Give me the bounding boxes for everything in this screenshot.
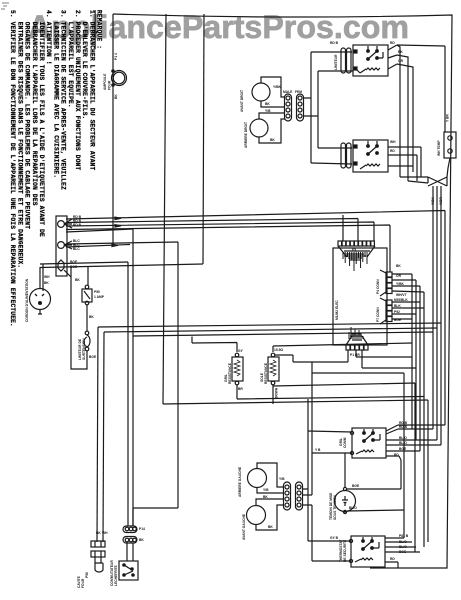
svg-text:GY B: GY B — [330, 536, 339, 540]
svg-text:DE SECURITE: DE SECURITE — [343, 539, 347, 562]
svg-text:P1 4: P1 4 — [114, 53, 118, 60]
svg-text:WH TEMP: WH TEMP — [437, 140, 441, 156]
svg-text:BK: BK — [89, 315, 94, 319]
svg-text:RD: RD — [390, 557, 395, 561]
svg-text:BK: BK — [263, 495, 268, 499]
svg-text:RD B: RD B — [399, 425, 408, 429]
svg-text:Y B: Y B — [315, 448, 321, 452]
svg-text:P14: P14 — [139, 527, 145, 531]
svg-text:RESISTANCE: RESISTANCE — [264, 362, 268, 384]
svg-text:WH/VT: WH/VT — [396, 293, 407, 297]
svg-text:LIMITEUR: LIMITEUR — [334, 54, 338, 70]
svg-text:BGE: BGE — [399, 447, 407, 451]
svg-text:Y/BK: Y/BK — [396, 282, 404, 286]
svg-text:M1/M2 ELEC: M1/M2 ELEC — [335, 300, 339, 320]
svg-text:BK: BK — [139, 538, 144, 542]
svg-text:RD: RD — [394, 453, 399, 457]
svg-text:15.5Ω: 15.5Ω — [274, 348, 283, 352]
svg-text:BK: BK — [44, 281, 49, 285]
svg-text:OR: OR — [398, 59, 404, 63]
svg-text:FOUR: FOUR — [81, 578, 85, 588]
svg-text:ARRIERE DROIT: ARRIERE DROIT — [244, 122, 248, 148]
svg-text:RESISTANCE: RESISTANCE — [228, 362, 232, 384]
svg-text:RD: RD — [390, 149, 395, 153]
svg-text:BR/WH: BR/WH — [275, 387, 279, 399]
svg-text:OR: OR — [396, 274, 402, 278]
svg-text:Y BR: Y BR — [446, 114, 450, 122]
svg-text:BGE: BGE — [394, 318, 402, 322]
svg-text:BK: BK — [398, 50, 403, 54]
svg-text:Y/BK: Y/BK — [273, 85, 281, 89]
svg-text:WH: WH — [390, 140, 396, 144]
svg-text:COMM: COMM — [343, 437, 347, 448]
svg-text:P4 CONN: P4 CONN — [376, 279, 380, 294]
svg-text:Y/B: Y/B — [263, 488, 269, 492]
svg-text:Y/B: Y/B — [265, 109, 271, 113]
svg-text:Y/BR: Y/BR — [439, 197, 443, 205]
svg-text:BGE: BGE — [89, 355, 97, 359]
svg-text:BK: BK — [270, 138, 275, 142]
svg-text:BL/O: BL/O — [399, 441, 407, 445]
svg-text:LECHEFRITE: LECHEFRITE — [114, 565, 118, 586]
svg-text:BL/O: BL/O — [399, 540, 407, 544]
svg-text:P9: P9 — [352, 248, 356, 252]
svg-text:RD B: RD B — [330, 41, 339, 45]
svg-text:AMPOULE: AMPOULE — [103, 73, 107, 90]
svg-text:BL/O: BL/O — [399, 436, 407, 440]
svg-text:GY: GY — [238, 349, 244, 353]
svg-text:SOUS TENSION: SOUS TENSION — [333, 494, 337, 520]
svg-text:Y/BK: Y/BK — [431, 197, 435, 205]
svg-text:BK: BK — [96, 531, 101, 535]
svg-text:BLC: BLC — [73, 247, 80, 251]
svg-text:ARRIERE GAUCHE: ARRIERE GAUCHE — [238, 466, 242, 497]
svg-text:CORDON D'ALIMENTATION: CORDON D'ALIMENTATION — [25, 278, 29, 322]
svg-text:FEM: FEM — [295, 90, 302, 94]
svg-text:BL/O: BL/O — [349, 506, 357, 510]
svg-text:BK: BK — [114, 94, 118, 99]
svg-text:BK: BK — [75, 278, 80, 282]
svg-text:BLK: BLK — [394, 304, 401, 308]
svg-text:AVANT GAUCHE: AVANT GAUCHE — [242, 513, 246, 540]
svg-text:P92: P92 — [394, 310, 400, 314]
svg-text:BGE: BGE — [352, 484, 360, 488]
svg-text:BL/O: BL/O — [399, 545, 407, 549]
svg-text:WH: WH — [102, 531, 108, 535]
svg-text:AVANT DROIT: AVANT DROIT — [240, 90, 244, 112]
svg-text:BGE: BGE — [399, 550, 407, 554]
svg-text:FOUR: FOUR — [108, 80, 112, 90]
svg-text:BGE: BGE — [70, 260, 78, 264]
svg-text:Y/B: Y/B — [279, 477, 285, 481]
svg-text:BK: BK — [268, 525, 273, 529]
svg-text:MALE: MALE — [283, 90, 293, 94]
svg-text:P7 CONN: P7 CONN — [376, 307, 380, 322]
svg-text:BR: BR — [238, 387, 243, 391]
svg-text:P50: P50 — [85, 572, 89, 578]
svg-text:BK: BK — [265, 102, 270, 106]
svg-text:1 AMP: 1 AMP — [94, 295, 105, 299]
svg-text:RD: RD — [390, 41, 395, 45]
svg-text:BK: BK — [396, 264, 401, 268]
svg-text:RD B: RD B — [73, 223, 82, 227]
svg-text:N55/BLK: N55/BLK — [394, 298, 408, 302]
svg-text:SURTENSION: SURTENSION — [82, 338, 86, 360]
svg-text:WH: WH — [44, 275, 50, 279]
svg-text:P50: P50 — [94, 290, 100, 294]
svg-text:P81 B: P81 B — [399, 534, 409, 538]
